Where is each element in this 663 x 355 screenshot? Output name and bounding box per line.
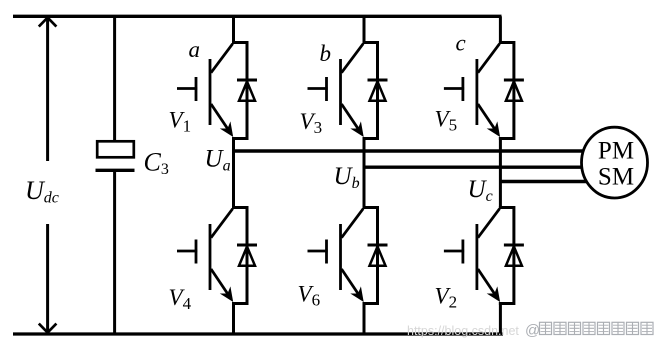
transistor V5 collector lead [478, 44, 500, 73]
transistor V5 emitter lead [478, 104, 496, 130]
transistor V3 gate bar [325, 77, 328, 101]
svg-text:Uc: Uc [468, 176, 493, 205]
transistor V4 emitter lead [211, 269, 229, 295]
svg-text:Ua: Ua [205, 146, 231, 175]
wire V4 emitter to negative rail [232, 302, 235, 335]
transistor V5 main bar [475, 59, 478, 125]
transistor V3 gate lead [308, 87, 328, 90]
wire top jog of transistor V2 [499, 206, 514, 209]
Udc dimension top arrowhead left wing [39, 18, 48, 27]
diode D3 cathode bar [368, 79, 388, 82]
Udc dimension bottom arrowhead left wing [39, 324, 48, 333]
capacitor C3 bottom plate [96, 169, 135, 172]
svg-text:c: c [456, 31, 466, 56]
wire diode branch of transistor V3 [376, 41, 379, 140]
transistor V1 gate bar [195, 77, 198, 101]
wire top jog of transistor V1 [232, 41, 247, 44]
wire V5 emitter to V2 collector (phase node) [499, 137, 502, 209]
transistor V1 emitter arrowhead [220, 121, 233, 137]
wire bottom jog of transistor V6 [363, 302, 378, 305]
wire phase c output Uc to motor [500, 180, 586, 183]
transistor V1 emitter lead [211, 104, 229, 130]
diode D1 triangle [239, 82, 255, 101]
watermark chinese characters (approximated) [540, 322, 654, 334]
transistor V6 main bar [339, 224, 342, 290]
transistor V6 gate lead [308, 250, 328, 253]
wire bottom jog of transistor V5 [499, 137, 514, 140]
diode D5 cathode bar [504, 79, 524, 82]
svg-text:C3: C3 [144, 148, 169, 179]
wire V6 emitter to negative rail [363, 302, 366, 335]
wire V1 emitter to V4 collector (phase node) [232, 137, 235, 209]
wire phase a output Ua to motor [234, 149, 583, 152]
transistor V2 main bar [475, 224, 478, 290]
wire top jog of transistor V5 [499, 41, 514, 44]
wire DC bus positive rail [13, 15, 502, 18]
diode D2 cathode bar [504, 244, 524, 247]
transistor V2 emitter arrowhead [487, 286, 500, 302]
svg-text:V2: V2 [435, 284, 458, 312]
diode D3 triangle [370, 82, 386, 101]
svg-text:V1: V1 [169, 108, 192, 136]
wire top jog of transistor V6 [363, 206, 378, 209]
svg-text:V6: V6 [298, 282, 321, 310]
transistor V1 collector lead [211, 44, 233, 73]
wire phase b output Ub to motor [364, 165, 581, 168]
svg-text:@: @ [525, 322, 540, 339]
wire bottom jog of transistor V3 [363, 137, 378, 140]
wire positive rail to V3 [363, 16, 366, 44]
transistor V5 gate bar [461, 77, 464, 101]
transistor V5 emitter arrowhead [487, 121, 500, 137]
wire bottom jog of transistor V2 [499, 302, 514, 305]
svg-text:Ub: Ub [334, 163, 360, 192]
transistor V1 gate lead [177, 87, 197, 90]
transistor V6 gate bar [325, 240, 328, 264]
wire from positive rail to capacitor C3 [113, 15, 116, 142]
transistor V4 collector lead [211, 209, 233, 238]
transistor V2 gate lead [444, 250, 464, 253]
transistor V6 emitter lead [342, 269, 360, 295]
wire diode branch of transistor V6 [376, 206, 379, 305]
wire bottom jog of transistor V1 [232, 137, 247, 140]
transistor V4 gate lead [177, 250, 197, 253]
transistor V4 gate bar [195, 240, 198, 264]
svg-text:https://blog.csdn.net: https://blog.csdn.net [407, 324, 519, 338]
svg-text:V3: V3 [300, 109, 323, 137]
wire DC bus negative rail [13, 332, 503, 335]
svg-text:SM: SM [598, 164, 634, 191]
wire diode branch of transistor V4 [246, 206, 249, 305]
diode D2 triangle [506, 247, 522, 266]
svg-text:Udc: Udc [25, 176, 59, 207]
transistor V2 gate bar [461, 240, 464, 264]
svg-text:b: b [320, 41, 332, 66]
transistor V2 emitter lead [478, 269, 496, 295]
wire from capacitor C3 to negative rail [113, 172, 116, 335]
Udc dimension top arrowhead right wing [48, 18, 57, 27]
transistor V3 main bar [339, 59, 342, 125]
transistor V3 emitter arrowhead [350, 121, 363, 137]
transistor V1 main bar [209, 59, 212, 125]
transistor V6 emitter arrowhead [350, 286, 363, 302]
transistor V3 emitter lead [342, 104, 360, 130]
svg-text:PM: PM [598, 138, 634, 165]
wire top jog of transistor V4 [232, 206, 247, 209]
diode D1 cathode bar [237, 79, 257, 82]
wire bottom jog of transistor V4 [232, 302, 247, 305]
diode D4 cathode bar [237, 244, 257, 247]
transistor V2 collector lead [478, 209, 500, 238]
wire V2 emitter to negative rail [499, 302, 502, 335]
diode D5 triangle [506, 82, 522, 101]
transistor V4 emitter arrowhead [220, 286, 233, 302]
wire positive rail to V1 [232, 16, 235, 44]
wire top jog of transistor V3 [363, 41, 378, 44]
capacitor C3 top plate [97, 141, 134, 157]
transistor V4 main bar [209, 224, 212, 290]
motor PMSM circle [582, 127, 648, 198]
transistor V6 collector lead [342, 209, 364, 238]
svg-text:V5: V5 [435, 107, 458, 135]
svg-text:V4: V4 [169, 285, 192, 313]
wire positive rail to V5 [499, 16, 502, 44]
diode D4 triangle [239, 247, 255, 266]
diode D6 cathode bar [368, 244, 388, 247]
Udc dimension line lower segment [46, 224, 49, 331]
wire diode branch of transistor V2 [512, 206, 515, 305]
wire V3 emitter to V6 collector (phase node) [363, 137, 366, 209]
diode D6 triangle [370, 247, 386, 266]
wire diode branch of transistor V1 [246, 41, 249, 140]
Udc dimension line upper segment [46, 20, 49, 162]
wire diode branch of transistor V5 [512, 41, 515, 140]
Udc dimension bottom arrowhead right wing [48, 324, 57, 333]
svg-text:a: a [189, 37, 201, 62]
transistor V3 collector lead [342, 44, 364, 73]
transistor V5 gate lead [444, 87, 464, 90]
